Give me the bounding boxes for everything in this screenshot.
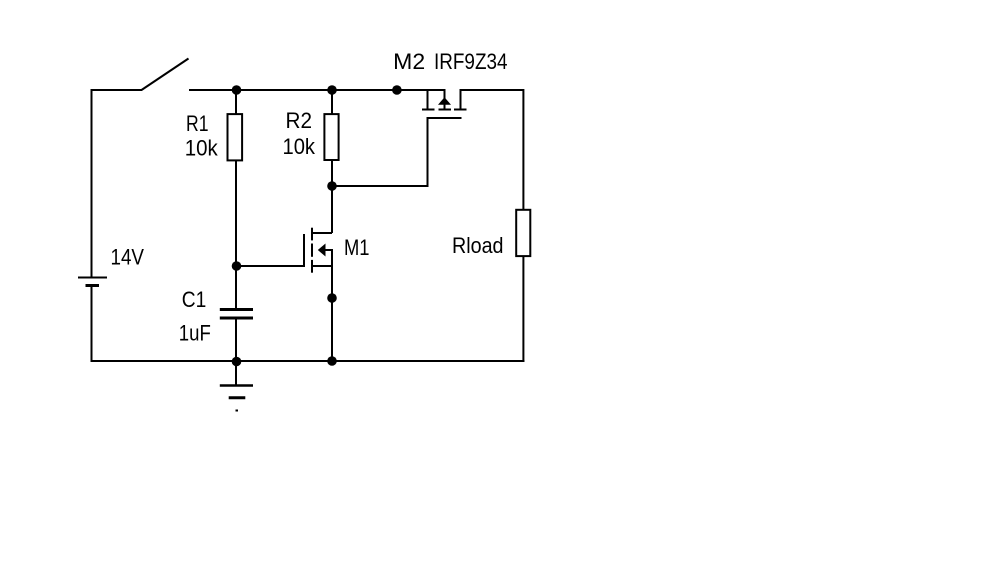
transistor M1 body tie xyxy=(324,249,333,251)
transistor M2 middle stub xyxy=(444,104,446,110)
resistor Rload body xyxy=(516,210,530,256)
transistor M1 source bar lead xyxy=(313,265,333,267)
node dot M1 gate xyxy=(232,261,242,271)
transistor M2 middle contact bar xyxy=(439,109,452,111)
wire M2 gate vertical drop xyxy=(427,117,429,187)
transistor M1 channel bar middle xyxy=(311,244,313,257)
transistor M1 gate bar xyxy=(303,234,305,267)
svg-text:R2: R2 xyxy=(286,108,313,133)
wire R1 top lead xyxy=(235,90,237,114)
node dot M1 source xyxy=(327,293,337,303)
ground bar 2 xyxy=(229,396,246,399)
capacitor C1 bottom plate xyxy=(220,317,253,320)
node dot ground xyxy=(232,357,242,367)
wire top-left corner and left vertical xyxy=(92,90,143,277)
wire R2 bottom to M1 drain xyxy=(331,161,333,233)
capacitor C1 top plate xyxy=(220,308,253,311)
transistor M2 middle lead xyxy=(444,89,446,99)
transistor M1 channel bar bottom xyxy=(311,260,313,273)
bottom rail wire xyxy=(91,360,525,362)
battery V1 short plate xyxy=(86,284,100,287)
svg-text:R1: R1 xyxy=(186,111,209,136)
wire M1 gate lead xyxy=(236,265,304,267)
wire R2 top lead xyxy=(331,90,333,114)
transistor M2 right contact bar xyxy=(454,109,467,111)
ground bar 1 xyxy=(220,384,253,387)
switch SW1 blade xyxy=(142,59,189,91)
resistor R1 body xyxy=(228,114,243,160)
ground lead xyxy=(235,361,237,385)
node dot M2 source xyxy=(392,85,402,95)
transistor M2 left contact bar xyxy=(422,109,435,111)
wire top rail xyxy=(189,89,446,91)
transistor M2 right lead xyxy=(460,89,462,110)
svg-text:1uF: 1uF xyxy=(179,321,211,346)
battery V1 long plate xyxy=(78,277,107,279)
node dot M1 source rail xyxy=(327,356,337,366)
resistor R2 body xyxy=(324,114,338,160)
svg-text:Rload: Rload xyxy=(452,233,504,258)
svg-text:C1: C1 xyxy=(182,287,207,312)
transistor M1 channel bar top xyxy=(311,228,313,241)
transistor M2 body arrow xyxy=(438,97,451,105)
transistor M1 body arrow xyxy=(318,244,326,257)
svg-text:IRF9Z34: IRF9Z34 xyxy=(434,49,508,74)
node dot R1 top xyxy=(232,85,242,95)
wire node B to M2 gate horizontal xyxy=(332,185,429,187)
wire C1 bottom lead xyxy=(235,319,237,361)
svg-text:10k: 10k xyxy=(283,134,316,159)
wire M2 drain to right rail xyxy=(461,90,524,210)
svg-text:10k: 10k xyxy=(185,136,219,161)
svg-text:M1: M1 xyxy=(344,235,370,260)
wire R1 bottom to gate node to C1 xyxy=(235,161,237,308)
transistor M1 drain lead xyxy=(313,232,332,234)
ground bar 3 xyxy=(236,410,239,412)
node dot R2 top xyxy=(327,85,337,95)
wire M1 source to bottom rail xyxy=(331,250,333,361)
wire battery negative to bottom rail xyxy=(91,287,93,362)
transistor M2 left lead xyxy=(427,89,429,110)
node dot R2 bottom / M2 gate xyxy=(327,181,337,191)
svg-text:14V: 14V xyxy=(111,245,145,270)
wire Rload bottom to bottom rail xyxy=(522,256,524,362)
svg-text:M2: M2 xyxy=(393,49,425,74)
transistor M2 gate bar xyxy=(427,117,462,119)
